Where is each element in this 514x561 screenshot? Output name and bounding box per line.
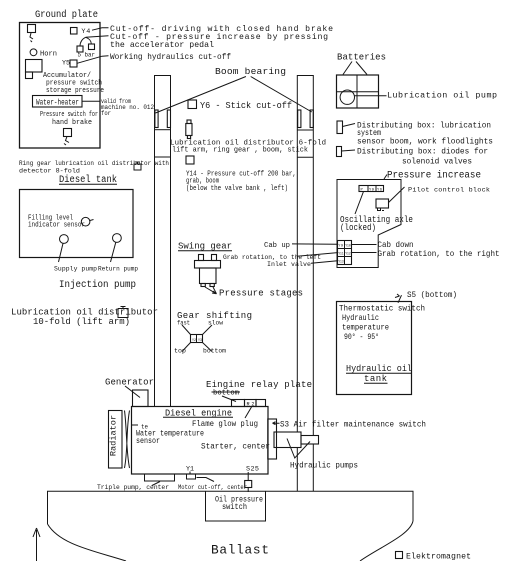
svg-text:sensor: sensor [136, 437, 160, 446]
svg-text:indicator sensor: indicator sensor [28, 222, 85, 230]
svg-text:S3 Air filter maintenance swit: S3 Air filter maintenance switch [280, 420, 426, 430]
wire grid to oscillating axle [355, 192, 364, 215]
elektromagnet square [396, 552, 403, 559]
filling level sensor circle [81, 217, 90, 226]
lubrication distributor cartridge [187, 120, 191, 124]
svg-text:Triple pump, center: Triple pump, center [97, 484, 169, 491]
svg-text:Generator: Generator [105, 378, 154, 388]
valve grid Y9 Y10 top [359, 186, 384, 192]
svg-text:Boom bearing: Boom bearing [215, 66, 286, 77]
horn [30, 49, 37, 56]
svg-text:Grab rotation, to the left: Grab rotation, to the left [223, 254, 321, 261]
supply pump circle [60, 235, 69, 244]
svg-text:Horn: Horn [40, 51, 57, 59]
water heater box [33, 96, 83, 108]
pressure increase box [337, 180, 401, 268]
svg-text:Y12: Y12 [345, 252, 351, 256]
svg-text:Hydraulic pumps: Hydraulic pumps [290, 461, 358, 471]
hydraulic pump block [274, 432, 301, 448]
svg-text:temperature: temperature [342, 324, 389, 333]
svg-text:Pressure switch for: Pressure switch for [40, 111, 98, 119]
wire bottom to relay box [222, 396, 236, 402]
wire grab rotation left to grid [297, 253, 338, 257]
svg-text:Y5: Y5 [62, 59, 70, 67]
svg-text:Batteries: Batteries [337, 53, 386, 63]
right tower column [297, 76, 313, 436]
svg-text:Y6 - Stick cut-off: Y6 - Stick cut-off [200, 101, 292, 111]
radiator box [109, 411, 123, 469]
svg-text:Ring gear lubrication oil dist: Ring gear lubrication oil distributor wi… [19, 160, 169, 167]
svg-text:Working hydraulics cut-off: Working hydraulics cut-off [110, 52, 231, 62]
svg-text:lift arm, ring gear , boom, st: lift arm, ring gear , boom, stick [172, 147, 309, 155]
arrow bottom left [33, 528, 40, 561]
svg-text:the accelerator pedal: the accelerator pedal [110, 40, 214, 50]
svg-text:sensor boom, work floodlights: sensor boom, work floodlights [357, 137, 493, 147]
svg-text:90° - 95°: 90° - 95° [344, 333, 379, 342]
svg-text:Y2: Y2 [192, 339, 197, 343]
svg-text:(locked): (locked) [340, 223, 376, 233]
svg-text:5 bar: 5 bar [78, 52, 96, 60]
boom bearing pointer left [156, 77, 246, 114]
svg-text:Cab down: Cab down [378, 240, 414, 250]
diesel tank box [20, 190, 134, 258]
switch K1 top-left square [28, 25, 36, 33]
hand brake switch [64, 129, 72, 137]
boom bearing pointer right [251, 77, 312, 113]
svg-text:detector 8-fold: detector 8-fold [19, 168, 80, 175]
svg-text:Flame glow plug: Flame glow plug [192, 419, 258, 429]
svg-text:Y9: Y9 [338, 244, 343, 248]
svg-text:Hydraulic: Hydraulic [342, 313, 379, 323]
lubrication oil pump circle [340, 90, 354, 104]
wire motor cutoff label [197, 478, 215, 482]
solenoid valve grid left [338, 241, 352, 265]
S25 switch symbol [247, 472, 249, 481]
arrow S3 [273, 422, 280, 425]
right tower lower legs to ballast [296, 448, 298, 492]
left tower column [155, 76, 171, 407]
svg-text:Elektromagnet: Elektromagnet [406, 552, 471, 561]
temp sensor tick [132, 424, 139, 426]
svg-text:Radiator: Radiator [108, 415, 118, 456]
gear shift valve box Y2 Y3 [191, 335, 203, 343]
svg-text:Injection pump: Injection pump [59, 279, 136, 291]
svg-text:Eingine relay plate: Eingine relay plate [206, 380, 312, 390]
svg-text:Hydraulic oil: Hydraulic oil [346, 364, 412, 374]
left tower bearing slot right [167, 110, 170, 128]
svg-text:Return pump: Return pump [98, 266, 138, 273]
wire grid to cab down [352, 244, 377, 246]
switch Y4 [71, 28, 78, 35]
svg-text:Y4: Y4 [81, 28, 90, 36]
distributing box 2 symbol [337, 147, 342, 157]
upper body outline with ballast [48, 491, 414, 561]
svg-text:Pilot control block: Pilot control block [408, 187, 490, 195]
svg-text:Y3: Y3 [198, 339, 203, 343]
radiator coolant squiggle [125, 411, 130, 469]
diesel engine box [132, 407, 269, 475]
wire grid to grab rotation right [352, 252, 377, 254]
wire water heater to note [82, 100, 100, 102]
svg-text:Swing gear: Swing gear [178, 242, 232, 252]
svg-text:Supply pump: Supply pump [54, 266, 97, 273]
svg-text:fast: fast [177, 320, 190, 327]
right tower crossbar [297, 129, 313, 131]
accumulator symbol [26, 60, 43, 73]
oil pressure switch box [206, 491, 266, 521]
pressure switches 5 bar [77, 46, 83, 52]
right tower bearing slot left [298, 110, 301, 128]
svg-text:bottom: bottom [213, 390, 240, 398]
wire 5bar to pressure increase label [86, 36, 109, 38]
svg-text:S5 (bottom): S5 (bottom) [407, 290, 457, 300]
svg-text:Ballast: Ballast [211, 543, 269, 558]
wire triple pump label [152, 482, 160, 486]
svg-text:Y9: Y9 [369, 189, 375, 193]
svg-text:Y10: Y10 [345, 244, 351, 248]
svg-text:for: for [101, 110, 111, 117]
svg-text:Ground plate: Ground plate [35, 9, 98, 21]
ring gear fitting symbol [134, 162, 141, 170]
switch Y6 stick cut-off [188, 100, 197, 109]
wire Y4 to cut-off driving label [92, 28, 109, 30]
ground plate box [20, 23, 101, 149]
gear shift cross lines [182, 325, 191, 335]
svg-text:Y13: Y13 [338, 260, 344, 264]
generator box [133, 390, 149, 407]
svg-text:Y6: Y6 [377, 189, 383, 193]
pilot control block symbol [376, 199, 389, 208]
battery box [337, 75, 379, 108]
distributing box 1 symbol [337, 121, 343, 134]
svg-text:Y11: Y11 [338, 252, 344, 256]
svg-text:bottom: bottom [203, 348, 226, 355]
hydraulic oil tank box [337, 302, 412, 395]
left tower crossbar [155, 129, 171, 131]
svg-text:Distributing box: diodes for: Distributing box: diodes for [357, 147, 488, 157]
wire cab up to valve grid [292, 243, 338, 245]
left tower bearing slot left [155, 110, 158, 128]
swing gear motor [199, 255, 204, 261]
distributor symbol on text [118, 307, 128, 318]
svg-text:Starter, center: Starter, center [201, 442, 270, 452]
hydraulic pumps pointer V [287, 439, 310, 459]
svg-text:Grab rotation, to the right: Grab rotation, to the right [378, 249, 500, 259]
right tower bearing slot right [310, 110, 313, 128]
switch S5 symbol [395, 294, 402, 303]
svg-text:slow: slow [208, 320, 223, 327]
triple pump notch [145, 474, 175, 481]
svg-text:Lubrication oil distributor: Lubrication oil distributor [11, 308, 158, 318]
motor cut-off notch Y1 [187, 474, 196, 479]
starter protrusion [268, 419, 277, 459]
svg-text:tank: tank [364, 374, 387, 384]
svg-text:Inlet valve: Inlet valve [267, 261, 311, 268]
svg-text:Motor cut-off, center: Motor cut-off, center [178, 484, 247, 491]
svg-text:Cab up: Cab up [264, 242, 290, 250]
svg-text:storage pressure: storage pressure [46, 87, 104, 95]
batteries pointer lines [343, 62, 352, 75]
wire inlet valve to grid [311, 261, 338, 264]
svg-text:Lubrication oil pump: Lubrication oil pump [387, 91, 497, 101]
svg-text:hand brake: hand brake [52, 119, 92, 127]
svg-text:10-fold (lift arm): 10-fold (lift arm) [33, 317, 130, 327]
valve Y14 [186, 156, 194, 164]
svg-text:Water-heater: Water-heater [36, 100, 79, 108]
svg-text:switch: switch [222, 502, 247, 512]
svg-text:solenoid valves: solenoid valves [402, 157, 472, 167]
wire pump to label [355, 95, 387, 97]
svg-text:Thermostatic switch: Thermostatic switch [339, 304, 425, 314]
wire flame glow plug to R2 [245, 407, 252, 418]
wire Y5 to working hydraulics label [77, 56, 109, 64]
wire pilot block to label [389, 187, 405, 203]
svg-text:(below the valve bank , left): (below the valve bank , left) [186, 185, 288, 193]
return pump circle [113, 234, 122, 243]
pressure stages arrow [205, 287, 217, 294]
svg-text:Pressure stages: Pressure stages [219, 289, 303, 299]
relay plate boxes on engine [232, 400, 245, 407]
